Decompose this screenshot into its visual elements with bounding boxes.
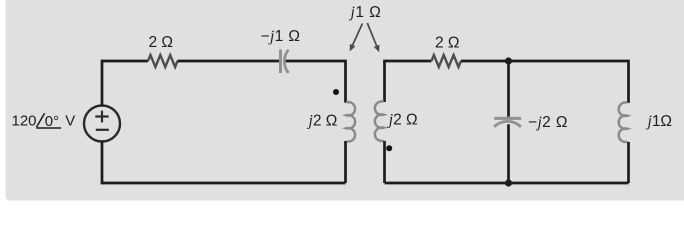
coupling arrow to secondary [367,23,379,52]
wire secondary top (top-left corner of right loop to coil) [385,61,432,102]
svg-text:−j2 Ω: −j2 Ω [528,114,568,131]
capacitor -j2 ohm [494,118,521,127]
svg-text:2 Ω: 2 Ω [435,34,460,51]
wire bottom-right (secondary loop bottom) [385,182,629,185]
junction dot bottom [505,179,512,186]
resistor 2 ohm (right) [431,55,461,67]
coupling arrow to primary [350,24,363,52]
svg-text:j1Ω: j1Ω [646,113,673,130]
svg-text:2 Ω: 2 Ω [149,34,174,51]
wire left vertical top (source to top-left corner) [102,61,148,106]
inductor secondary j2 ohm (coil) [375,101,384,141]
wire bottom-left (primary loop bottom) [102,141,346,183]
svg-text:0°: 0° [45,113,59,130]
dot convention primary [333,89,339,95]
label 120/0° V [12,113,76,131]
svg-text:j1 Ω: j1 Ω [349,4,382,21]
wire top-right (resistor to right corner) [461,61,629,103]
wire (left resistor to capacitor) [178,60,280,63]
svg-text:V: V [65,113,75,130]
inductor primary j2 ohm (coil) [346,102,355,142]
inductor j1 ohm (right branch coil) [619,102,628,142]
wire right vertical lower (coil to bottom-right corner) [627,142,630,183]
svg-text:−j1 Ω: −j1 Ω [261,28,301,45]
dot convention secondary [386,145,392,151]
svg-text:120: 120 [12,113,37,130]
wire secondary bottom (coil to bottom corner) [383,141,386,183]
wire middle branch lower [507,124,510,183]
svg-text:j2 Ω: j2 Ω [387,111,418,128]
wire (capacitor to primary top corner, down to coil) [286,61,346,103]
resistor 2 ohm (left) [148,55,178,67]
capacitor -j1 ohm [281,50,289,74]
wire middle branch upper [507,61,510,117]
wire primary bottom (coil to bottom-left corner) [344,141,347,183]
junction dot top (node at -j2 branch) [505,57,512,64]
voltage source VS 120/0 V [84,106,120,142]
svg-text:j2 Ω: j2 Ω [307,113,338,130]
